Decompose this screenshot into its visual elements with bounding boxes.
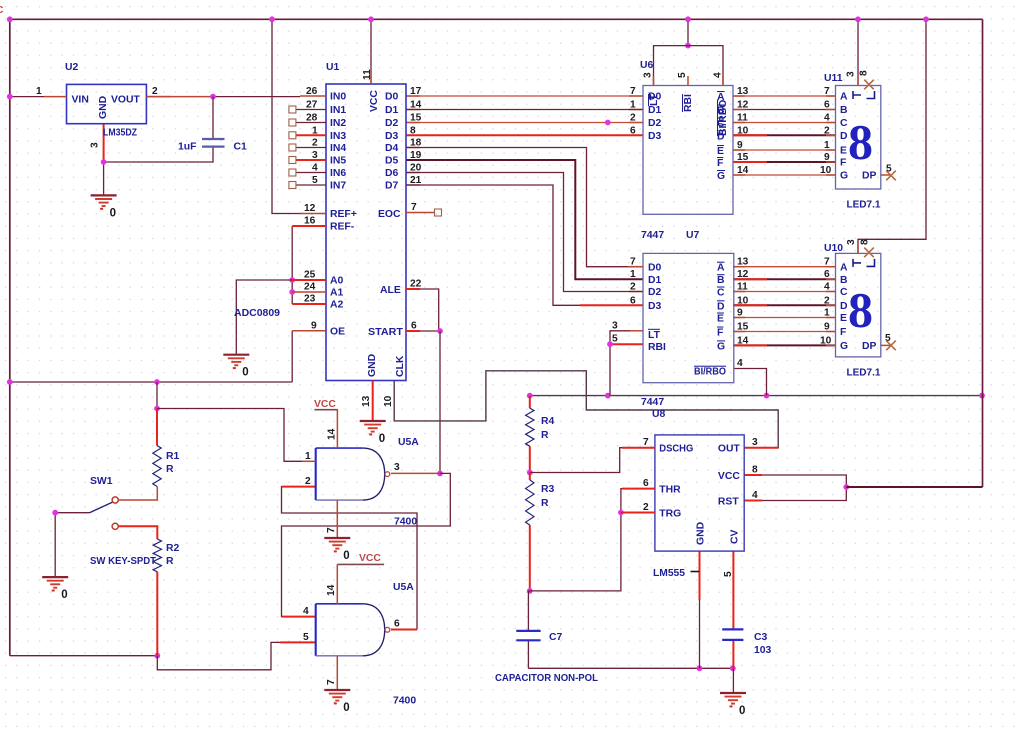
svg-text:24: 24 xyxy=(304,282,316,293)
svg-text:VOUT: VOUT xyxy=(111,95,141,106)
pin 2 U2 xyxy=(146,96,171,98)
no-connect X U10 pin8 xyxy=(864,248,874,258)
op-amp U1 ADC0809 box xyxy=(326,84,406,381)
pin 28 IN2 xyxy=(296,122,326,124)
wire: DSCHG to R4/R3 node xyxy=(530,448,640,473)
svg-text:6: 6 xyxy=(824,269,830,280)
pin 7 EOC xyxy=(406,212,434,214)
wire: REF-/A0/A1/A2 tie xyxy=(291,226,293,304)
svg-text:LT: LT xyxy=(648,330,661,341)
svg-text:10: 10 xyxy=(820,165,832,176)
svg-text:G: G xyxy=(840,341,848,352)
svg-text:LM555: LM555 xyxy=(653,568,685,579)
svg-text:B: B xyxy=(840,275,848,286)
svg-text:A: A xyxy=(717,263,725,274)
svg-text:4: 4 xyxy=(312,163,318,174)
svg-text:21: 21 xyxy=(410,175,422,186)
junction SW common xyxy=(52,510,58,516)
svg-text:D3: D3 xyxy=(648,131,662,142)
svg-text:D4: D4 xyxy=(385,143,399,154)
pin 27 IN1 xyxy=(296,109,326,111)
junction left rail y382 xyxy=(7,379,13,385)
svg-text:25: 25 xyxy=(304,270,316,281)
svg-text:4: 4 xyxy=(737,358,743,369)
svg-text:11: 11 xyxy=(737,113,748,124)
junction U2 gnd / C1 xyxy=(101,159,107,165)
pin 4 IN6 xyxy=(296,172,326,174)
svg-text:U1: U1 xyxy=(326,62,340,73)
svg-text:IN1: IN1 xyxy=(330,105,346,116)
wire: U7 output 2 to U10 xyxy=(733,291,836,293)
svg-text:E: E xyxy=(840,313,847,324)
svg-text:C1: C1 xyxy=(234,142,248,153)
svg-text:D2: D2 xyxy=(385,118,399,129)
svg-text:8: 8 xyxy=(848,281,873,337)
resistor R4 zigzag xyxy=(526,408,534,446)
no-connect square xyxy=(289,144,296,151)
pin 23 A2 xyxy=(292,303,326,305)
ground ADC analog xyxy=(223,355,249,379)
svg-text:14: 14 xyxy=(326,584,337,596)
wire: U7 output 0 to U10 xyxy=(733,266,836,268)
U10 DP pin 5 xyxy=(881,344,890,346)
wire: C1 top lead xyxy=(212,97,214,139)
svg-text:C: C xyxy=(0,5,4,16)
svg-text:R: R xyxy=(541,498,549,509)
svg-text:SW1: SW1 xyxy=(90,476,113,487)
wire: D6 step to U7 D2 xyxy=(406,173,643,292)
svg-text:C: C xyxy=(840,118,848,129)
svg-text:D7: D7 xyxy=(385,181,399,192)
wire: U6 output 3 to U11 xyxy=(733,134,836,136)
wire: U6 output 4 to U11 xyxy=(733,149,836,151)
svg-text:0: 0 xyxy=(110,207,116,219)
svg-text:0: 0 xyxy=(739,705,745,717)
no-connect square xyxy=(289,119,296,126)
junction RBI xyxy=(607,341,613,347)
wire: SW1 common to ground xyxy=(55,513,89,577)
svg-text:VCC: VCC xyxy=(359,553,381,564)
wire: VOUT to IN0 xyxy=(146,96,213,98)
svg-text:8: 8 xyxy=(410,125,416,136)
wire: U2 GND pin3 down xyxy=(103,124,105,162)
wire: U6 input pin stubs xyxy=(629,95,643,97)
svg-text:6: 6 xyxy=(643,478,649,489)
svg-text:REF+: REF+ xyxy=(330,209,357,220)
pin 9 OE xyxy=(292,330,326,332)
wire: U6 output 6 to U11 xyxy=(733,174,836,176)
svg-text:B: B xyxy=(840,105,848,116)
wire: 555 RST pin4 xyxy=(762,487,846,501)
svg-text:14: 14 xyxy=(410,100,422,111)
pin 5 IN7 xyxy=(296,184,326,186)
svg-text:D: D xyxy=(840,131,848,142)
gate1 pin 1 xyxy=(302,460,316,462)
svg-text:D0: D0 xyxy=(648,92,662,103)
svg-text:1: 1 xyxy=(312,125,318,136)
svg-text:18: 18 xyxy=(410,138,422,149)
junction U10 rail xyxy=(923,16,929,22)
pin 3 IN5 xyxy=(296,159,326,161)
svg-text:7400: 7400 xyxy=(394,517,417,528)
op U11 LED7.1 display xyxy=(836,86,881,190)
svg-text:1: 1 xyxy=(36,86,42,97)
svg-text:15: 15 xyxy=(737,322,749,333)
pin 1 IN3 xyxy=(296,134,326,136)
op U2 LM35DZ regulator xyxy=(67,84,147,123)
resistor R3 zigzag xyxy=(526,480,534,525)
ground gate2 pin7 xyxy=(324,690,350,714)
svg-text:EOC: EOC xyxy=(378,209,401,220)
wire: ALE down to START xyxy=(420,289,439,331)
op U10 LED7.1 display xyxy=(836,253,881,357)
no-connect X U11 pin8 xyxy=(864,80,874,90)
junction C3 bottom xyxy=(730,665,736,671)
svg-text:F: F xyxy=(840,158,846,169)
svg-text:15: 15 xyxy=(737,152,749,163)
junction gate1 output xyxy=(437,471,443,477)
wire: U7 LT pin3 xyxy=(610,331,630,396)
junction A1 xyxy=(289,289,295,295)
svg-text:7400: 7400 xyxy=(393,696,416,707)
svg-text:7: 7 xyxy=(643,437,649,448)
op U8 LM555 box xyxy=(655,435,744,551)
pin 22 ALE xyxy=(406,288,420,290)
power VCC gate1 xyxy=(314,409,337,411)
wire: OE to net xyxy=(291,331,293,382)
svg-text:B: B xyxy=(717,106,725,117)
svg-text:D6: D6 xyxy=(385,168,399,179)
svg-text:20: 20 xyxy=(410,163,422,174)
svg-text:D1: D1 xyxy=(648,105,662,116)
rotated T L glyphs xyxy=(853,91,861,99)
svg-text:9: 9 xyxy=(737,308,743,319)
gate2 pin 7 xyxy=(336,656,338,690)
wire: A0 row to analog gnd xyxy=(236,280,292,355)
wire: U6 output 5 to U11 xyxy=(733,161,836,163)
wire: long net y=382 xyxy=(10,381,292,383)
junction C1 top xyxy=(210,94,216,100)
pin 2 IN4 xyxy=(296,147,326,149)
svg-text:5: 5 xyxy=(312,175,318,186)
svg-text:IN7: IN7 xyxy=(330,181,346,192)
svg-text:D5: D5 xyxy=(385,156,399,167)
svg-text:6: 6 xyxy=(394,619,400,630)
svg-text:1uF: 1uF xyxy=(178,142,196,153)
wire: U7 output 1 to U10 xyxy=(733,278,836,280)
wire: C7 top lead xyxy=(527,591,529,631)
svg-text:E: E xyxy=(717,314,724,325)
svg-text:VCC: VCC xyxy=(718,471,740,482)
wire: gate2 pin5 stub xyxy=(280,641,316,643)
junction R3/C7/THR xyxy=(527,588,533,594)
svg-text:3: 3 xyxy=(643,72,654,78)
junction U1 VCC rail xyxy=(368,16,374,22)
svg-text:F: F xyxy=(717,158,723,169)
svg-text:13: 13 xyxy=(737,86,749,97)
wire: R1 top red lead xyxy=(156,409,158,446)
capacitor C3 plates xyxy=(722,628,743,630)
svg-text:27: 27 xyxy=(306,100,318,111)
junction on D2 row xyxy=(605,120,611,126)
junction R4/R3/DSCHG xyxy=(527,470,533,476)
SW1 throw contact 1 xyxy=(112,497,118,503)
SW1 throw contact 2 xyxy=(112,523,118,529)
svg-text:2: 2 xyxy=(824,295,830,306)
wire: R2 bottom red lead xyxy=(156,572,158,656)
U1 VCC pin 11 xyxy=(370,19,372,84)
svg-text:4: 4 xyxy=(752,490,758,501)
no-connect square xyxy=(289,132,296,139)
svg-text:U5A: U5A xyxy=(398,437,419,448)
svg-text:U6: U6 xyxy=(640,60,654,71)
no-connect square xyxy=(289,106,296,113)
svg-text:THR: THR xyxy=(659,484,681,495)
wire: 555 GND pin1 down xyxy=(699,551,701,600)
no-connect square xyxy=(289,182,296,189)
op-amp U5A gate2 NAND gate xyxy=(316,603,363,605)
svg-text:D3: D3 xyxy=(385,131,399,142)
wire: R4 top lead xyxy=(529,396,531,409)
svg-text:6: 6 xyxy=(411,321,417,332)
svg-text:D0: D0 xyxy=(385,92,399,103)
resistor R1 zigzag xyxy=(153,446,161,487)
svg-text:RST: RST xyxy=(718,497,739,508)
svg-text:4: 4 xyxy=(713,72,724,78)
svg-text:R: R xyxy=(166,556,174,567)
svg-text:5: 5 xyxy=(303,632,309,643)
wire: bottom net C7/gnd/C3 xyxy=(528,667,732,669)
wire: left vertical rail xyxy=(9,19,11,655)
svg-text:1: 1 xyxy=(824,308,830,319)
svg-text:A2: A2 xyxy=(330,300,344,311)
svg-text:11: 11 xyxy=(737,282,748,293)
svg-text:B: B xyxy=(717,275,725,286)
svg-text:IN2: IN2 xyxy=(330,118,346,129)
svg-text:G: G xyxy=(840,171,848,182)
wire: U6 output 1 to U11 xyxy=(733,109,836,111)
svg-text:D0: D0 xyxy=(648,262,662,273)
svg-text:R4: R4 xyxy=(541,416,555,427)
svg-text:28: 28 xyxy=(306,113,318,124)
wire: START down to gate1 out xyxy=(439,331,441,473)
svg-text:R1: R1 xyxy=(166,451,180,462)
svg-text:U5A: U5A xyxy=(393,582,414,593)
resistor R2 zigzag xyxy=(153,539,161,572)
svg-text:26: 26 xyxy=(306,86,318,97)
no-connect X U10 DP xyxy=(886,341,896,351)
svg-text:CV: CV xyxy=(730,529,741,544)
svg-text:1: 1 xyxy=(630,269,636,280)
junction U7 LT/RBI drop xyxy=(605,393,611,399)
svg-text:CAPACITOR NON-POL: CAPACITOR NON-POL xyxy=(495,673,599,684)
junction right rail xyxy=(979,393,985,399)
wire: U7 RBI pin5 (red) xyxy=(610,343,643,345)
svg-text:2: 2 xyxy=(305,476,311,487)
svg-text:7447: 7447 xyxy=(641,230,664,241)
ground U2 pin3 xyxy=(91,195,117,219)
svg-text:A: A xyxy=(717,92,725,103)
svg-text:4: 4 xyxy=(824,282,830,293)
wire: U7 output 6 to U10 xyxy=(733,344,836,346)
wire: R3 bottom lead xyxy=(529,525,531,591)
svg-text:REF-: REF- xyxy=(330,222,355,233)
ground C3 xyxy=(720,693,746,717)
svg-text:U7: U7 xyxy=(686,230,700,241)
wire: U7 output 5 to U10 xyxy=(733,331,836,333)
svg-text:LED7.1: LED7.1 xyxy=(847,200,881,211)
svg-text:6: 6 xyxy=(824,100,830,111)
svg-text:13: 13 xyxy=(737,257,749,268)
svg-text:7: 7 xyxy=(824,86,830,97)
svg-text:9: 9 xyxy=(737,140,743,151)
wire: VCC top rail xyxy=(10,18,983,20)
svg-text:5: 5 xyxy=(677,72,688,78)
svg-text:IN5: IN5 xyxy=(330,156,346,167)
svg-text:GND: GND xyxy=(367,353,378,377)
svg-text:A: A xyxy=(840,262,848,273)
svg-text:9: 9 xyxy=(824,322,830,333)
no-connect square xyxy=(289,169,296,176)
svg-text:IN0: IN0 xyxy=(330,92,346,103)
svg-text:2: 2 xyxy=(630,113,636,124)
svg-text:7: 7 xyxy=(326,527,337,533)
svg-text:OUT: OUT xyxy=(718,444,741,455)
wire: U7 input pin stubs xyxy=(629,266,643,268)
svg-text:9: 9 xyxy=(311,320,317,331)
wire: REF+ from VCC rail xyxy=(272,19,300,213)
svg-text:A: A xyxy=(840,92,848,103)
svg-text:C7: C7 xyxy=(549,632,563,643)
svg-text:6: 6 xyxy=(630,295,636,306)
junction R1 drop xyxy=(154,379,160,385)
wire: D3 row U1-U6 (red) xyxy=(406,134,643,136)
svg-text:14: 14 xyxy=(737,165,749,176)
wire: gate1 pin2 stub xyxy=(282,486,316,488)
svg-text:D2: D2 xyxy=(648,118,662,129)
U8 pin 6 THR xyxy=(622,488,655,490)
svg-text:2: 2 xyxy=(152,86,158,97)
wire: U2 VIN feed xyxy=(10,96,44,98)
svg-text:DP: DP xyxy=(862,341,877,352)
svg-text:G: G xyxy=(717,341,725,352)
wire: U11 pin3 to VCC rail xyxy=(857,19,859,85)
wire: 555 VCC pin8 xyxy=(762,475,846,487)
junction top-left VCC xyxy=(7,16,13,22)
no-connect square xyxy=(289,157,296,164)
svg-text:2: 2 xyxy=(824,125,830,136)
svg-text:U8: U8 xyxy=(652,409,666,420)
wire: CLK route from U1 pin10 to 555 OUT xyxy=(394,371,778,448)
gate1 pin 3 output xyxy=(391,472,440,474)
svg-text:0: 0 xyxy=(61,589,67,601)
svg-text:D3: D3 xyxy=(648,301,662,312)
svg-text:1: 1 xyxy=(824,140,830,151)
pin 26 IN0 xyxy=(300,95,326,97)
svg-text:7: 7 xyxy=(326,679,337,685)
svg-text:START: START xyxy=(368,327,404,338)
svg-text:4: 4 xyxy=(824,113,830,124)
svg-text:IN6: IN6 xyxy=(330,168,346,179)
svg-text:10: 10 xyxy=(737,295,749,306)
junction R2 bottom xyxy=(154,653,160,659)
no-connect square EOC xyxy=(435,209,442,216)
ground gate1 pin7 xyxy=(324,538,350,562)
op U6 7447 box xyxy=(643,86,733,215)
gate1 pin 7 xyxy=(336,500,338,538)
rotated T L glyphs xyxy=(853,259,861,267)
svg-text:2: 2 xyxy=(643,502,649,513)
svg-text:10: 10 xyxy=(820,335,832,346)
junction U6 rail xyxy=(685,16,691,22)
wire: U6 output 2 to U11 xyxy=(733,122,836,124)
svg-text:15: 15 xyxy=(410,113,422,124)
wire: U6 output 0 to U11 xyxy=(733,95,836,97)
svg-text:R: R xyxy=(166,464,174,475)
svg-text:DSCHG: DSCHG xyxy=(659,444,693,455)
svg-text:3: 3 xyxy=(846,71,857,77)
junction 555 GND xyxy=(697,665,703,671)
svg-text:7: 7 xyxy=(824,257,830,268)
wire: R3 top lead xyxy=(529,473,531,481)
svg-text:OE: OE xyxy=(330,327,345,338)
svg-text:LED7.1: LED7.1 xyxy=(847,367,881,378)
junction R1 top xyxy=(154,406,160,412)
wire: gate2 pin4 stub xyxy=(282,616,316,618)
svg-text:10: 10 xyxy=(737,125,749,136)
pin 24 A1 xyxy=(292,291,326,293)
U7 input rows from U1 stubs xyxy=(628,266,643,268)
wire: SW throw2 to R2 xyxy=(118,526,157,539)
wire: R4 net y=395.6 xyxy=(530,395,983,397)
svg-text:E: E xyxy=(717,146,724,157)
svg-text:1: 1 xyxy=(630,100,636,111)
svg-text:VCC: VCC xyxy=(369,90,380,112)
svg-text:ALE: ALE xyxy=(380,285,401,296)
svg-text:22: 22 xyxy=(410,279,422,290)
svg-text:C: C xyxy=(840,287,848,298)
wire: R4 bottom lead xyxy=(529,446,531,472)
svg-text:VIN: VIN xyxy=(72,95,89,106)
svg-text:GND: GND xyxy=(696,521,707,545)
svg-text:E: E xyxy=(840,146,847,157)
wire: R1 top to gate1 pin1 xyxy=(157,409,302,462)
wire: 555 OUT pin3 stub xyxy=(744,447,778,449)
junction VCC8/RST4 xyxy=(843,484,849,490)
svg-text:DP: DP xyxy=(862,171,877,182)
pin 16 REF- xyxy=(292,225,326,227)
svg-text:2: 2 xyxy=(312,138,318,149)
wire: D7 step to U7 D3 xyxy=(406,185,643,305)
svg-text:17: 17 xyxy=(410,86,422,97)
wire: U10 pin3 to VCC rail xyxy=(858,19,926,253)
svg-text:RBI: RBI xyxy=(648,342,666,353)
ground SW1 common xyxy=(42,577,68,601)
junction U6 loop xyxy=(685,43,691,49)
junction U11 rail xyxy=(855,16,861,22)
svg-text:0: 0 xyxy=(343,702,349,714)
wire: right vertical rail xyxy=(982,19,984,487)
svg-text:C: C xyxy=(717,119,725,130)
no-connect X U11 DP xyxy=(886,171,896,181)
svg-text:U2: U2 xyxy=(65,62,79,73)
pin 25 A0 xyxy=(292,279,326,281)
svg-text:7: 7 xyxy=(411,202,417,213)
svg-text:BI/RBO: BI/RBO xyxy=(694,367,726,378)
svg-text:F: F xyxy=(717,328,723,339)
svg-text:12: 12 xyxy=(304,203,316,214)
svg-text:ADC0809: ADC0809 xyxy=(234,308,280,319)
